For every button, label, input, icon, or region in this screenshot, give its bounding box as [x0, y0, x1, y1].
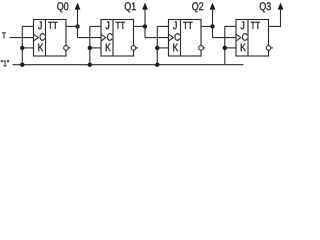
wire K input U2 — [90, 47, 101, 49]
flip-flop U2 box — [101, 20, 134, 57]
U3 clock dynamic-input chevron — [169, 34, 174, 41]
wire riser from bus to U4 — [224, 26, 226, 64]
constant "1" label — [1, 60, 9, 66]
U1 pin label J — [38, 21, 42, 29]
wire Q2 arrow stem — [212, 9, 214, 27]
wire riser from bus to U1 — [21, 26, 23, 64]
wire "1" bus — [13, 64, 244, 66]
junction dot riser/K U2 — [88, 46, 92, 50]
wire node Q0 down to next clock row — [77, 26, 79, 37]
wire Q0 output of U1 — [66, 25, 78, 27]
wire Q2 output of U3 — [201, 25, 213, 27]
U1 pin label C — [40, 33, 45, 41]
arrowhead Q3 output indicator — [278, 3, 284, 10]
junction dot riser/bus U3 — [155, 62, 159, 66]
arrowhead Q1 output indicator — [142, 3, 148, 10]
U3 complement output bubble — [199, 46, 204, 51]
U4 type label TT — [251, 22, 260, 29]
U3 type label TT — [183, 22, 192, 29]
wire J input U3 — [157, 25, 168, 27]
wire J input U4 — [225, 25, 236, 27]
flip-flop U1 box — [34, 20, 67, 57]
junction dot node Q2 — [210, 24, 214, 28]
U2 complement output stub — [136, 47, 138, 49]
U2 pin label K — [106, 44, 111, 52]
arrowhead Q0 output indicator — [75, 3, 81, 10]
wire Q0 to clock C of U2 — [78, 37, 102, 39]
junction dot riser/K U3 — [155, 46, 159, 50]
wire J input U1 — [22, 25, 33, 27]
U4 pin label C — [242, 33, 247, 41]
wire K input U1 — [22, 47, 33, 49]
U4 complement output bubble — [266, 46, 271, 51]
U4 pin label J — [241, 21, 245, 29]
wire riser from bus to U2 — [89, 26, 91, 64]
wire Q0 arrow stem — [77, 9, 79, 27]
wire J input U2 — [90, 25, 101, 27]
U3 complement output stub — [203, 47, 205, 49]
junction dot riser/bus U2 — [88, 62, 92, 66]
U1 complement output stub — [68, 47, 70, 49]
junction dot riser/K U1 — [20, 46, 24, 50]
wire Q3 output of U4 — [269, 9, 281, 27]
U4 pin label K — [241, 44, 246, 52]
junction dot node Q0 — [75, 24, 79, 28]
wire K input U4 — [225, 47, 236, 49]
wire K input U3 — [157, 47, 168, 49]
wire Q2 to clock C of U4 — [213, 37, 237, 39]
node Q3 label — [260, 2, 271, 12]
U4 clock dynamic-input chevron — [236, 34, 241, 41]
U4 complement output stub — [271, 47, 273, 49]
flip-flop U3 box — [169, 20, 202, 57]
U1 type label TT — [48, 22, 57, 29]
U3 pin label J — [173, 21, 177, 29]
wire node Q2 down to next clock row — [212, 26, 214, 37]
junction dot riser/bus U1 — [20, 62, 24, 66]
flip-flop U4 box — [236, 20, 269, 57]
U2 clock dynamic-input chevron — [101, 34, 106, 41]
wire Q1 to clock C of U3 — [145, 37, 169, 39]
U1 clock dynamic-input chevron — [34, 34, 39, 41]
U2 pin label C — [107, 33, 112, 41]
node Q2 label — [192, 2, 203, 12]
node Q1 label — [125, 2, 136, 12]
U3 pin label C — [175, 33, 180, 41]
U2 pin label J — [106, 21, 110, 29]
U2 type label TT — [116, 22, 125, 29]
wire Q1 output of U2 — [134, 25, 146, 27]
wire node Q1 down to next clock row — [144, 26, 146, 37]
node Q0 label — [57, 2, 68, 12]
U1 complement output bubble — [64, 46, 69, 51]
input T label — [2, 32, 6, 38]
wire T input to clock C of U1 — [10, 37, 34, 39]
U2 complement output bubble — [131, 46, 136, 51]
wire riser from bus to U3 — [156, 26, 158, 64]
arrowhead Q2 output indicator — [210, 3, 216, 10]
U3 pin label K — [173, 44, 178, 52]
junction dot riser/K U4 — [223, 46, 227, 50]
junction dot node Q1 — [143, 24, 147, 28]
wire Q1 arrow stem — [144, 9, 146, 27]
U1 pin label K — [38, 44, 43, 52]
